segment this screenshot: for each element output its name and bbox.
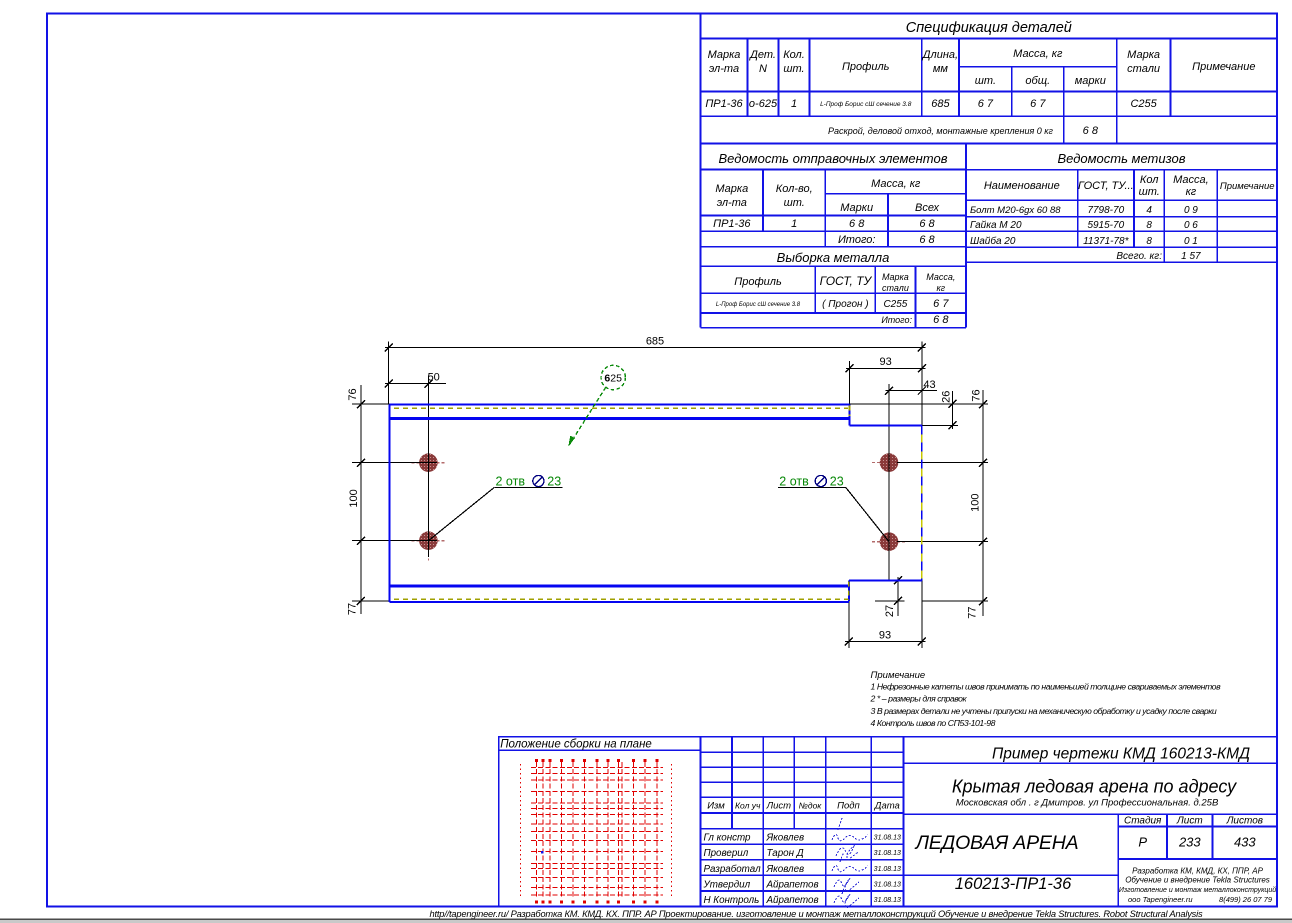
- svg-text:7798-70: 7798-70: [1087, 205, 1124, 216]
- svg-text:100: 100: [969, 494, 981, 512]
- svg-text:43: 43: [923, 379, 935, 391]
- title block: right part lines: [904, 763, 1278, 906]
- svg-text:Утвердил: Утвердил: [703, 879, 751, 890]
- svg-text:Шайба 20: Шайба 20: [970, 235, 1016, 247]
- window bottom edge: [0, 919, 1292, 920]
- svg-text:Листов: Листов: [1226, 816, 1263, 827]
- svg-text:Марка: Марка: [715, 183, 748, 195]
- title block left texts: [707, 801, 900, 812]
- svg-text:Наименование: Наименование: [984, 180, 1060, 192]
- svg-text:о-625: о-625: [749, 98, 778, 110]
- svg-text:8(499) 26 07 79: 8(499) 26 07 79: [1219, 895, 1273, 904]
- svg-text:Итого:: Итого:: [881, 315, 912, 325]
- svg-text:11371-78*: 11371-78*: [1083, 236, 1130, 247]
- svg-text:76: 76: [970, 389, 982, 401]
- svg-text:Айрапетов: Айрапетов: [766, 879, 819, 890]
- svg-text:Масса, кг: Масса, кг: [871, 178, 921, 190]
- svg-text:31.08.13: 31.08.13: [874, 897, 901, 904]
- hole H4 (bottom right): [872, 525, 906, 562]
- svg-text:кг: кг: [1186, 186, 1197, 198]
- svg-text:Изм: Изм: [707, 801, 725, 812]
- svg-text:Айрапетов: Айрапетов: [766, 895, 819, 906]
- svg-text:Кол: Кол: [1140, 174, 1159, 186]
- table: Спецификация деталей texts: [705, 20, 1255, 137]
- dimension chain 76/100/77 (left): [357, 385, 365, 614]
- table: Ведомость отправочных элементов lines: [701, 144, 967, 328]
- svg-text:ЛЕДОВАЯ АРЕНА: ЛЕДОВАЯ АРЕНА: [914, 832, 1079, 854]
- svg-text:0 6: 0 6: [1184, 220, 1198, 231]
- svg-text:Примечание: Примечание: [1220, 181, 1275, 192]
- red grid tick marks (top and bottom): [535, 759, 659, 904]
- dimension 50 (top left): [385, 380, 446, 388]
- svg-text:Яковлев: Яковлев: [766, 864, 805, 875]
- svg-text:31.08.13: 31.08.13: [874, 881, 901, 888]
- table: Выборка металла texts: [716, 250, 955, 326]
- svg-text:31.08.13: 31.08.13: [874, 850, 901, 857]
- table: Спецификация деталей (parts specification) lines: [701, 14, 1278, 328]
- svg-text:Итого:: Итого:: [838, 234, 876, 246]
- svg-text:Масса,: Масса,: [1173, 174, 1209, 186]
- svg-text:Проверил: Проверил: [704, 848, 749, 859]
- svg-text:эл-та: эл-та: [717, 197, 747, 209]
- svg-text:шт.: шт.: [784, 197, 805, 209]
- svg-text:8: 8: [1146, 236, 1152, 247]
- svg-text:С255: С255: [1130, 98, 1157, 110]
- dimension 43: [885, 387, 937, 395]
- svg-text:Спецификация деталей: Спецификация деталей: [906, 20, 1072, 36]
- svg-text:ПР1-36: ПР1-36: [705, 98, 743, 110]
- svg-text:Ведомость отправочных элементо: Ведомость отправочных элементов: [719, 151, 948, 166]
- svg-text:Кол-во,: Кол-во,: [776, 183, 813, 195]
- svg-text:77: 77: [347, 603, 359, 615]
- svg-text:Изготовление и монтаж металлок: Изготовление и монтаж металлоконструкций: [1119, 886, 1276, 894]
- svg-text:кг: кг: [936, 283, 945, 293]
- svg-text:100: 100: [348, 489, 360, 507]
- svg-text:6 8: 6 8: [1083, 125, 1099, 137]
- hole H1 (top left): [411, 446, 445, 480]
- svg-text:Длина,: Длина,: [921, 49, 958, 61]
- svg-text:Марка: Марка: [1127, 49, 1160, 61]
- svg-text:Гайка М 20: Гайка М 20: [970, 220, 1022, 231]
- dimension 26 (right vertical): [949, 391, 957, 429]
- svg-text:0 1: 0 1: [1184, 236, 1198, 247]
- hole note left: 2 отв ⌀23 with leader: [428, 474, 562, 540]
- svg-text:1: 1: [791, 98, 797, 110]
- svg-text:ГОСТ, ТУ: ГОСТ, ТУ: [820, 274, 873, 288]
- svg-text:6 8: 6 8: [919, 234, 935, 246]
- plate right edge (blue/yellow dashed): [921, 425, 923, 580]
- hole H3 (top right): [872, 446, 906, 480]
- svg-text:6 7: 6 7: [933, 298, 949, 310]
- svg-text:Профиль: Профиль: [734, 276, 782, 288]
- svg-text:Всех: Всех: [915, 202, 939, 214]
- svg-text:Крытая ледовая арена по адресу: Крытая ледовая арена по адресу: [952, 777, 1237, 797]
- table: Ведомость метизов lines: [966, 170, 1277, 263]
- svg-text:6 7: 6 7: [978, 98, 994, 110]
- svg-text:L-Проф Борис сШ сечение 3.8: L-Проф Борис сШ сечение 3.8: [820, 101, 912, 108]
- svg-text:6 8: 6 8: [919, 218, 935, 230]
- svg-text:Всего. кг:: Всего. кг:: [1116, 251, 1162, 262]
- plate outline (blue): [390, 405, 922, 602]
- svg-text:31.08.13: 31.08.13: [874, 835, 901, 842]
- svg-text:27: 27: [884, 605, 896, 617]
- svg-text:93: 93: [879, 630, 891, 642]
- svg-text:стали: стали: [882, 283, 909, 293]
- table: Выборка металла lines: [701, 266, 967, 328]
- svg-text:Разработал: Разработал: [704, 864, 762, 875]
- svg-text:Профиль: Профиль: [842, 61, 890, 73]
- svg-text:3 В размерах детали не учтены: 3 В размерах детали не учтены припуски н…: [871, 706, 1217, 716]
- svg-text:1 Нефрезонные катеты швов при: 1 Нефрезонные катеты швов принимать по н…: [871, 682, 1222, 692]
- svg-text:Масса, кг: Масса, кг: [1013, 48, 1063, 60]
- svg-text:0 9: 0 9: [1184, 205, 1198, 216]
- svg-text:6 8: 6 8: [849, 218, 865, 230]
- svg-text:Ведомость метизов: Ведомость метизов: [1057, 151, 1185, 166]
- svg-text:625: 625: [604, 372, 622, 384]
- svg-text:Масса,: Масса,: [926, 272, 955, 282]
- svg-text:Стадия: Стадия: [1124, 816, 1162, 827]
- svg-text:160213-ПР1-36: 160213-ПР1-36: [955, 875, 1072, 893]
- svg-text:стали: стали: [1127, 63, 1160, 75]
- svg-text:4: 4: [1146, 205, 1152, 216]
- svg-text:50: 50: [428, 372, 440, 384]
- svg-text:Разработка КМ, КМД, КХ, ППР, А: Разработка КМ, КМД, КХ, ППР, АР: [1132, 867, 1264, 876]
- svg-text:Положение сборки на плане: Положение сборки на плане: [500, 738, 652, 750]
- svg-text:мм: мм: [933, 63, 949, 75]
- svg-text:2 отв: 2 отв: [779, 474, 809, 488]
- svg-text:общ.: общ.: [1025, 75, 1050, 87]
- dimension chain 76/100/77 (right): [979, 390, 987, 616]
- svg-text:23: 23: [547, 474, 561, 488]
- drawing: black extension lines: [352, 342, 988, 649]
- svg-text:23: 23: [830, 474, 844, 488]
- svg-text:6 8: 6 8: [933, 314, 949, 326]
- svg-text:Кол уч: Кол уч: [735, 801, 761, 811]
- table: Ведомость метизов texts: [970, 151, 1275, 262]
- red plan grid: [521, 762, 672, 899]
- hole note right: 2 отв ⌀23 with leader: [778, 474, 889, 541]
- svg-text:шт.: шт.: [783, 63, 804, 75]
- svg-text:5915-70: 5915-70: [1087, 220, 1124, 231]
- svg-text:Выборка металла: Выборка металла: [777, 250, 890, 265]
- dimension 93 (top right): [846, 364, 926, 372]
- svg-text:марки: марки: [1075, 75, 1106, 87]
- svg-text:Марка: Марка: [708, 49, 741, 61]
- svg-text:Болт М20-6gх 60 88: Болт М20-6gх 60 88: [970, 205, 1061, 216]
- svg-text:Лист: Лист: [1176, 816, 1203, 827]
- svg-text:Кол.: Кол.: [783, 49, 805, 61]
- svg-text:ооо Tapengineer.ru: ооо Tapengineer.ru: [1128, 895, 1193, 904]
- svg-text:8: 8: [1146, 220, 1152, 231]
- svg-text:N: N: [759, 63, 767, 75]
- svg-text:шт.: шт.: [1139, 186, 1160, 198]
- svg-text:( Прогон ): ( Прогон ): [822, 299, 868, 310]
- svg-text:Р: Р: [1138, 835, 1147, 850]
- svg-text:2 отв: 2 отв: [496, 474, 526, 488]
- svg-text:233: 233: [1178, 835, 1201, 850]
- svg-text:685: 685: [646, 336, 664, 348]
- svg-text:Примечание: Примечание: [871, 670, 926, 681]
- svg-text:685: 685: [931, 98, 950, 110]
- svg-text:ПР1-36: ПР1-36: [713, 218, 751, 230]
- svg-text:26: 26: [941, 391, 953, 403]
- hole H2 (bottom left): [411, 524, 445, 561]
- title block: left columns (Изм/Кол.уч/Лист/№док/Подп/Дата): [701, 737, 1278, 907]
- svg-text:эл-та: эл-та: [709, 63, 739, 75]
- svg-text:76: 76: [347, 388, 359, 400]
- svg-text:№док: №док: [799, 801, 823, 811]
- svg-text:Лист: Лист: [766, 801, 792, 812]
- assembly position marker (blue): [541, 851, 544, 854]
- svg-text:ГОСТ, ТУ...: ГОСТ, ТУ...: [1078, 180, 1134, 192]
- svg-text:Марки: Марки: [840, 202, 873, 214]
- svg-text:1 57: 1 57: [1181, 251, 1201, 262]
- svg-text:Пример чертежи КМД 160213-КМД: Пример чертежи КМД 160213-КМД: [992, 746, 1250, 763]
- svg-text:Яковлев: Яковлев: [766, 833, 805, 844]
- svg-text:93: 93: [879, 356, 891, 368]
- svg-text:6 7: 6 7: [1030, 98, 1046, 110]
- svg-text:Гл констр: Гл констр: [704, 833, 752, 844]
- svg-text:http//tapengineer.ru/ Разрабо: http//tapengineer.ru/ Разработка КМ. КМД…: [430, 909, 1203, 919]
- svg-text:Примечание: Примечание: [1192, 61, 1255, 73]
- svg-text:Н Контроль: Н Контроль: [704, 895, 760, 906]
- signatures (blue scribbles in Подп column): [832, 818, 868, 908]
- box: Положение сборки на плане: [499, 737, 701, 907]
- svg-text:С255: С255: [883, 299, 907, 310]
- svg-text:4 Контроль швов по СП53-101-: 4 Контроль швов по СП53-101-98: [871, 718, 996, 728]
- svg-text:Раскрой, деловой отход, монтаж: Раскрой, деловой отход, монтажные крепле…: [828, 126, 1054, 136]
- dimension 685 (top): [385, 344, 926, 352]
- svg-text:Тарон Д: Тарон Д: [767, 848, 804, 859]
- hidden lines (olive dashed): [394, 406, 850, 601]
- svg-text:Дата: Дата: [874, 801, 900, 812]
- svg-text:Московская обл . г Дмитров. у: Московская обл . г Дмитров. ул Профессио…: [956, 798, 1219, 809]
- table: Ведомость отправочных элементов texts: [713, 151, 948, 246]
- svg-text:433: 433: [1234, 835, 1256, 850]
- svg-text:Дет.: Дет.: [748, 49, 776, 61]
- svg-text:31.08.13: 31.08.13: [874, 866, 901, 873]
- dimension 93 (bottom right): [845, 637, 926, 645]
- svg-text:шт.: шт.: [975, 75, 996, 87]
- svg-text:2 * – размеры для справок: 2 * – размеры для справок: [870, 694, 968, 704]
- svg-text:1: 1: [791, 218, 797, 230]
- dimension 27 (bottom right vertical): [894, 576, 902, 616]
- svg-text:Марка: Марка: [882, 272, 909, 282]
- svg-text:77: 77: [966, 606, 978, 618]
- svg-text:L-Проф Борис сШ сечение 3.8: L-Проф Борис сШ сечение 3.8: [716, 302, 801, 308]
- notes (Примечание): [870, 670, 1222, 728]
- plate flange thick lines (blue): [390, 418, 850, 586]
- part mark balloon 625 with green leader arrow: [568, 365, 625, 447]
- svg-text:Обучение и внедрение Tekla St: Обучение и внедрение Tekla Structures: [1125, 876, 1270, 885]
- svg-text:Подп: Подп: [837, 801, 860, 812]
